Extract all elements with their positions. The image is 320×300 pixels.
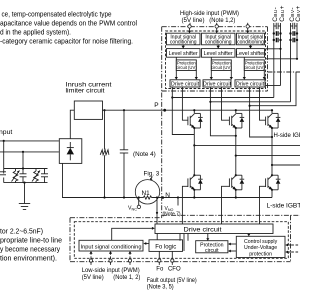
module boundary dash-dot right vertical high-side bbox=[267, 27, 269, 91]
wire VB pin line V bbox=[266, 58, 298, 60]
node junction on line 1 bbox=[3, 140, 5, 142]
wire U low gate bbox=[182, 186, 188, 224]
wire W Vs line bbox=[250, 87, 272, 137]
svg-text:(Note 7): (Note 7) bbox=[163, 211, 181, 217]
IGBT Q3 high-side W bbox=[266, 109, 274, 165]
wire filter top bar bbox=[4, 168, 48, 170]
node junction P rail zigzag branch bbox=[103, 109, 105, 111]
svg-text:Under-Voltage: Under-Voltage bbox=[244, 245, 277, 251]
wire W gate line bbox=[260, 87, 266, 120]
IGBT Q4 low-side U bbox=[188, 145, 196, 197]
svg-text:protection: protection bbox=[249, 251, 272, 257]
diode D5 freewheel V low bbox=[236, 175, 244, 190]
svg-text:Fo: Fo bbox=[156, 267, 164, 273]
wire V low gate bbox=[222, 186, 230, 224]
drive circuit low box bbox=[155, 224, 273, 234]
terminal high-side input V bbox=[215, 25, 218, 28]
capacitor CBU mid 1 bbox=[273, 31, 282, 36]
wire drive to control supply bbox=[248, 234, 250, 236]
drive circuit U bbox=[170, 80, 200, 87]
svg-text:conditioning: conditioning bbox=[205, 40, 232, 46]
wire V gate line bbox=[222, 87, 230, 120]
module boundary dash-dot left vertical bbox=[161, 27, 163, 218]
capacitor C2 bbox=[41, 169, 48, 183]
wire N rail right of shunt bbox=[152, 197, 179, 199]
drive circuit W bbox=[235, 80, 265, 87]
shunt resistor in N1 bbox=[144, 196, 152, 199]
svg-text:-category ceramic capacitor fo: -category ceramic capacitor for noise fi… bbox=[0, 38, 133, 46]
wire CBV- vertical bbox=[290, 23, 292, 102]
svg-text:Level shifter: Level shifter bbox=[204, 51, 233, 57]
terminal high-side input W bbox=[246, 25, 249, 28]
wire dashed input V arrow bbox=[216, 28, 218, 32]
svg-text:P: P bbox=[154, 102, 158, 109]
wire VNO tap bbox=[177, 198, 179, 206]
wire N rail through circle bbox=[135, 197, 143, 199]
wire filter bottom bar bbox=[4, 182, 48, 184]
wire left edge stubs bbox=[3, 169, 5, 174]
wire VB pin line U bbox=[266, 48, 281, 50]
LVIC dashed box bbox=[74, 222, 288, 259]
svg-text:tor 2.2~6.5nF): tor 2.2~6.5nF) bbox=[0, 228, 43, 236]
diode D6 freewheel W low bbox=[272, 175, 280, 190]
svg-text:N: N bbox=[165, 192, 170, 199]
svg-text:d in the applied system).: d in the applied system). bbox=[0, 29, 71, 37]
wire drop from line 1 bbox=[3, 141, 5, 169]
wire U output bbox=[194, 144, 300, 146]
wire W low gate bbox=[260, 186, 266, 224]
module boundary dash-dot top edge bbox=[162, 26, 268, 28]
varistor V1 bbox=[12, 169, 20, 183]
wire Fo bbox=[158, 251, 160, 259]
drive circuit V bbox=[203, 80, 231, 87]
diode D3 freewheel W high bbox=[272, 113, 280, 128]
level shifter W bbox=[237, 49, 265, 58]
svg-text:L-side IGBT: L-side IGBT bbox=[267, 203, 301, 210]
wire CBU+ vertical bbox=[280, 23, 282, 86]
svg-text:apacitance value depends on th: apacitance value depends on the PWM cont… bbox=[0, 20, 137, 28]
module boundary dash-dot high-side bottom bbox=[162, 90, 268, 92]
diode D1 freewheel U high bbox=[194, 113, 202, 128]
wire N emitter rail extension bbox=[178, 197, 272, 199]
node P terminal bbox=[163, 109, 166, 112]
arrow level shifter to drive right bbox=[263, 70, 265, 78]
node junction top bar bbox=[22, 167, 24, 169]
wire U gate line bbox=[182, 87, 188, 120]
svg-text:propriate line-to line: propriate line-to line bbox=[0, 237, 62, 245]
svg-text:Input signal conditioning: Input signal conditioning bbox=[81, 245, 142, 251]
node U Vs bootstrap junction bbox=[171, 96, 173, 98]
arrow Fig.3 pointer bbox=[151, 177, 153, 180]
wire stem to terminal 1 bbox=[189, 23, 191, 25]
svg-text:(Note 4): (Note 4) bbox=[133, 151, 156, 158]
svg-text:limiter circuit: limiter circuit bbox=[66, 88, 105, 95]
svg-text:conditioning: conditioning bbox=[170, 40, 197, 46]
wire drive interconnect a bbox=[179, 234, 181, 241]
node junction bottom bar bbox=[23, 182, 25, 184]
wire U Vs line bbox=[172, 87, 194, 135]
wire dashed stub below Fo bbox=[158, 262, 160, 265]
arrow level shifter to drive left bbox=[175, 57, 177, 78]
svg-text:Drive circuit: Drive circuit bbox=[236, 81, 265, 87]
IGBT Q5 low-side V bbox=[229, 156, 237, 198]
IGBT Q2 high-side V bbox=[229, 109, 237, 156]
svg-text:circuit (UV): circuit (UV) bbox=[176, 65, 197, 70]
wire input line 2 bbox=[0, 151, 59, 153]
svg-text:ce, temp-compensated electroly: ce, temp-compensated electrolytic type bbox=[2, 11, 112, 19]
svg-text:Drive circuit: Drive circuit bbox=[171, 81, 200, 87]
wire drive interconnect b bbox=[183, 234, 185, 252]
svg-text:input: input bbox=[0, 129, 12, 136]
module boundary dash-dot bottom edge bbox=[70, 261, 291, 263]
wire dashed low input arrow 1 bbox=[90, 253, 92, 259]
svg-text:Drive circuit: Drive circuit bbox=[184, 227, 222, 234]
node shunt left tap bbox=[138, 196, 140, 198]
svg-text:conditioning: conditioning bbox=[237, 40, 264, 46]
arrow level shifter to drive left bbox=[243, 57, 245, 78]
wire V Vs line bbox=[210, 87, 235, 136]
node N terminal bbox=[162, 196, 165, 199]
wire dashed stub below input 2 bbox=[110, 262, 112, 265]
terminal VNC bbox=[137, 205, 140, 208]
svg-text:CBU+: CBU+ bbox=[279, 5, 286, 22]
capacitor edge (cut) bbox=[0, 172, 6, 175]
wire CBV+ vertical bbox=[296, 23, 298, 59]
wire ground stem bbox=[24, 183, 26, 204]
terminal low input 2 bbox=[109, 259, 112, 262]
module boundary dash-dot low right vertical bbox=[290, 215, 292, 261]
input signal conditioning W bbox=[237, 33, 265, 45]
wire dashed low input arrow 2 bbox=[110, 253, 112, 259]
arrow supply into control box 1 bbox=[287, 244, 292, 246]
arrow level shifter to drive left bbox=[210, 57, 212, 78]
note text top-left bbox=[0, 11, 137, 46]
Fo logic box bbox=[149, 240, 183, 252]
arrow supply into control box 2 bbox=[287, 251, 292, 253]
node junction on line 2 bbox=[22, 151, 24, 153]
wire CBU- vertical bbox=[273, 23, 275, 98]
wire dashed stub below CFO bbox=[171, 262, 173, 265]
capacitor CBV mid 2 bbox=[289, 38, 298, 43]
module boundary dash-dot low-left vertical bbox=[69, 218, 71, 262]
IGBT Q1 high-side U bbox=[188, 109, 196, 145]
wire dashed input U arrow bbox=[189, 28, 191, 32]
diode inside rectifier bbox=[67, 142, 74, 160]
svg-text:Fault output (5V line): Fault output (5V line) bbox=[147, 278, 197, 284]
wire drive interconnect c bbox=[187, 234, 189, 241]
arrow level shifter to drive right bbox=[230, 70, 232, 78]
capacitor CBV top bbox=[291, 23, 298, 29]
wire CFO bbox=[171, 251, 173, 259]
arrow cond to level shifter W bbox=[250, 45, 252, 47]
wire input line 1 bbox=[0, 140, 59, 142]
terminal CFO bbox=[171, 259, 174, 262]
varistor V2 bbox=[32, 169, 40, 183]
svg-text:y become necessary: y become necessary bbox=[0, 246, 60, 254]
svg-text:Control supply: Control supply bbox=[244, 239, 278, 245]
bootstrap line V bbox=[210, 101, 290, 103]
wire P rail bbox=[103, 109, 273, 111]
ground bbox=[19, 204, 30, 210]
terminal low input 1 bbox=[89, 259, 92, 262]
arrow cond to level shifter V bbox=[217, 45, 219, 47]
level shifter U bbox=[167, 49, 201, 58]
terminal Fo bbox=[158, 259, 161, 262]
input signal conditioning U bbox=[167, 33, 201, 45]
node V Vs bootstrap junction bbox=[209, 101, 211, 103]
bootstrap line W bbox=[250, 72, 296, 106]
wire dashed low input arrow 3 bbox=[129, 253, 131, 259]
module boundary dash-dot lower mid horizontal bbox=[162, 214, 300, 216]
wire dashed stub below input 1 bbox=[90, 262, 92, 265]
module boundary dash-dot right jog bbox=[268, 71, 301, 73]
rectifier bridge box bbox=[59, 139, 82, 164]
capacitor C1 bbox=[20, 169, 27, 183]
svg-text:(5V line): (5V line) bbox=[182, 18, 205, 24]
HVIC dashed box bbox=[166, 31, 266, 89]
bootstrap line U bbox=[172, 97, 273, 99]
capacitor CBU top bbox=[274, 23, 281, 29]
current sensor N1 circle bbox=[135, 180, 159, 204]
wire drive to protection bbox=[207, 234, 209, 240]
diode D4 freewheel U low bbox=[194, 175, 202, 190]
svg-text:Low-side input (PWM): Low-side input (PWM) bbox=[82, 268, 140, 274]
arrow control to protection 1 bbox=[230, 243, 237, 245]
arrow level shifter to drive right bbox=[195, 70, 197, 78]
module boundary dash-dot low-left top bbox=[70, 217, 162, 219]
wire dashed stub below input 3 bbox=[129, 262, 131, 265]
svg-text:circuit: circuit bbox=[205, 248, 219, 254]
wire drive to Fo logic bbox=[156, 234, 158, 240]
arrow control to protection 2 bbox=[230, 250, 237, 252]
arrow cond to level shifter U bbox=[182, 45, 184, 47]
wire stem to terminal 2 bbox=[216, 23, 218, 25]
wire rectifier positive up to inrush limiter bbox=[70, 110, 74, 139]
capacitor CBU mid 2 bbox=[273, 38, 282, 43]
IGBT Q6 low-side W bbox=[266, 165, 274, 198]
svg-text:circuit (UV): circuit (UV) bbox=[244, 65, 265, 70]
wire W output bbox=[272, 164, 300, 166]
wire drop from line 2 bbox=[22, 152, 24, 169]
diode D2 freewheel V high bbox=[236, 113, 244, 128]
surge absorber ZNR bbox=[100, 110, 109, 197]
arrow Fo logic to conditioning bbox=[145, 243, 149, 245]
input signal conditioning low box bbox=[79, 240, 143, 251]
svg-text:(Note 3, 5): (Note 3, 5) bbox=[147, 284, 174, 290]
terminal high-side input U bbox=[188, 25, 191, 28]
wire VNC tap bbox=[138, 198, 140, 206]
input signal conditioning V bbox=[202, 33, 236, 45]
svg-text:CFO: CFO bbox=[168, 267, 181, 273]
svg-text:High-side input (PWM): High-side input (PWM) bbox=[180, 10, 239, 17]
wire rectifier negative to bottom rail bbox=[63, 163, 136, 197]
wire conditioning riser to drive circuit bbox=[112, 228, 153, 240]
inrush current limiter box bbox=[74, 101, 102, 119]
node shunt right tap bbox=[156, 196, 158, 198]
wire shunt sense to LVIC bbox=[156, 198, 158, 225]
svg-text:Fig. 3: Fig. 3 bbox=[144, 171, 160, 178]
svg-text:N1: N1 bbox=[142, 190, 151, 197]
svg-text:Level shifter: Level shifter bbox=[236, 51, 265, 57]
svg-text:(Note 1, 2): (Note 1, 2) bbox=[113, 275, 140, 281]
node junction P rail cap branch bbox=[123, 109, 125, 111]
node junction bottom rail zigzag bbox=[103, 196, 105, 198]
control supply UV box bbox=[236, 236, 285, 257]
wire dashed input W arrow bbox=[247, 28, 249, 32]
node junction bottom rail cap bbox=[123, 196, 125, 198]
protection circuit low box bbox=[196, 241, 228, 253]
svg-text:Drive circuit: Drive circuit bbox=[203, 81, 232, 87]
svg-text:Fo logic: Fo logic bbox=[155, 245, 176, 251]
svg-text:H-side IGBT: H-side IGBT bbox=[274, 133, 301, 139]
terminal low input 3 bbox=[128, 259, 131, 262]
wire V output bbox=[236, 155, 300, 157]
svg-text:(Note 1,2): (Note 1,2) bbox=[209, 18, 235, 24]
svg-text:tion environment).: tion environment). bbox=[0, 255, 57, 263]
svg-text:Level shifter: Level shifter bbox=[169, 51, 198, 57]
note text bottom-left bbox=[0, 228, 62, 263]
wire drive W to supply bbox=[265, 85, 281, 87]
wire stem to terminal 3 bbox=[247, 23, 249, 25]
svg-text:circuit (UV): circuit (UV) bbox=[211, 65, 232, 70]
capacitor CBV mid 1 bbox=[289, 31, 298, 36]
level shifter V bbox=[202, 49, 236, 58]
capacitor smoothing (Note 4) bbox=[120, 110, 128, 197]
svg-text:(5V line): (5V line) bbox=[82, 275, 104, 281]
node W Vs bootstrap junction bbox=[249, 105, 251, 107]
